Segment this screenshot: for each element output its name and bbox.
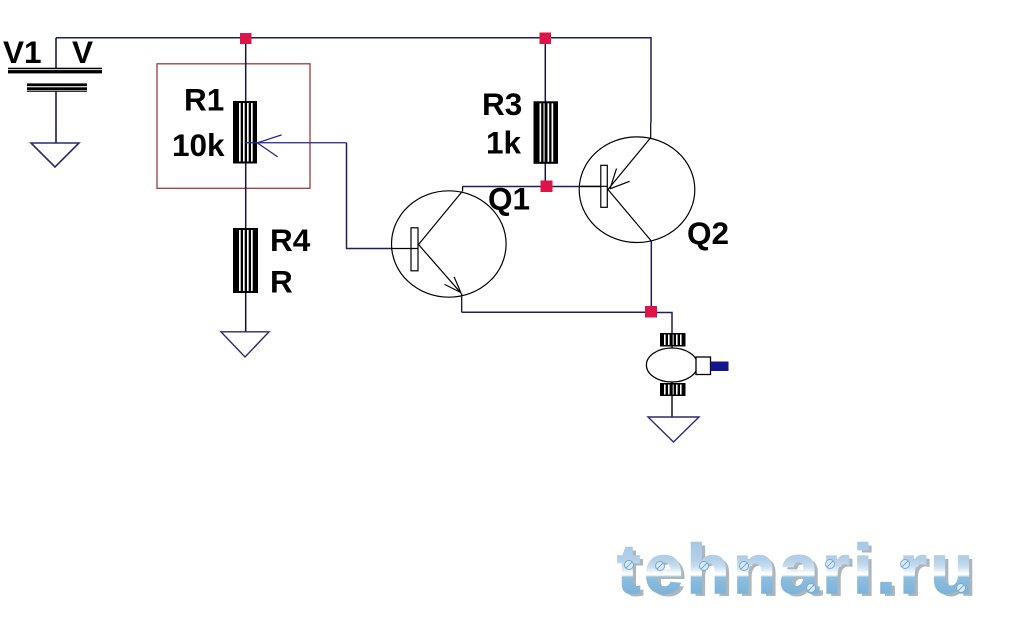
- svg-text:R: R: [270, 264, 293, 300]
- svg-text:R1: R1: [184, 82, 224, 118]
- svg-text:R4: R4: [270, 222, 311, 258]
- wire: R1 bottom to R4 top: [245, 164, 247, 229]
- wire: Q2 emitter down to motor node: [650, 241, 652, 306]
- resistor R3 body: [534, 101, 559, 164]
- potentiometer R1 wiper arrow: [246, 135, 347, 157]
- svg-text:Q2: Q2: [687, 215, 729, 251]
- wire: node to motor top terminal: [657, 313, 672, 334]
- wire: R1 wiper to Q1 base: [347, 143, 393, 249]
- wire: V1 positive terminal up to rail: [55, 38, 57, 69]
- transistor Q1: [392, 186, 507, 312]
- resistor R4 body: [233, 228, 258, 293]
- red selection box around R1: [157, 64, 310, 189]
- wire: R3 bottom to node: [544, 164, 546, 181]
- ground symbol at V1: [31, 143, 79, 167]
- motor M1: [646, 333, 728, 396]
- potentiometer R1 body: [233, 101, 257, 164]
- ground symbol at motor: [648, 417, 699, 442]
- wire: top power rail from V1 to Q2 collector drop: [56, 38, 651, 123]
- wire: V1 negative terminal to ground: [55, 92, 57, 144]
- wire: Q1 collector to node: [463, 186, 541, 188]
- svg-text:V1: V1: [3, 34, 42, 70]
- wire: node to Q2 base: [553, 186, 602, 188]
- wire: R4 bottom to ground: [245, 293, 247, 332]
- svg-text:tehnari.ru: tehnari.ru: [617, 530, 977, 608]
- watermark tehnari.ru: [617, 530, 981, 611]
- transistor Q2: [579, 123, 695, 243]
- junction node: emitters / motor (red square): [645, 306, 657, 318]
- wire: rail junction down to R1 top: [245, 44, 247, 102]
- svg-text:R3: R3: [482, 86, 522, 122]
- svg-text:1k: 1k: [486, 125, 522, 161]
- wire: rail junction down to R3 top: [544, 44, 546, 102]
- wire: Q1 emitter to motor node: [462, 311, 645, 313]
- junction node: Q1 collector / R3 / Q2 base (red square): [541, 181, 553, 193]
- wire: motor bottom to ground: [671, 396, 673, 417]
- ground symbol at R4: [221, 332, 269, 357]
- svg-text:10k: 10k: [172, 127, 225, 163]
- battery V1: [8, 68, 102, 92]
- svg-text:V: V: [72, 34, 93, 70]
- junction node: rail / R1 top (red square): [240, 33, 252, 44]
- junction node: rail / R3 top (red square): [540, 33, 552, 45]
